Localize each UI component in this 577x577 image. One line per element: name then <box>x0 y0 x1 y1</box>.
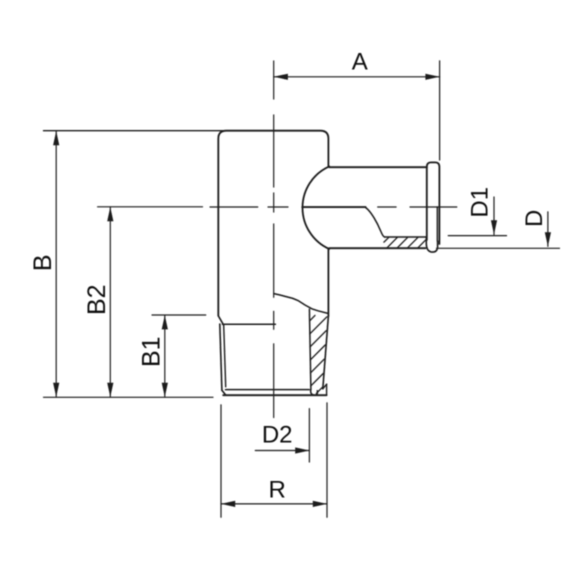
ridge section blob <box>426 238 437 252</box>
dome arc (barb root bulge) <box>303 166 330 249</box>
body right edge below dome <box>327 249 329 316</box>
dimension D <box>437 212 560 249</box>
right thread end chamfer <box>323 384 327 389</box>
interior wavy transition line (bore to thread) <box>274 294 328 314</box>
horizontal centerline <box>210 206 457 208</box>
svg-text:B2: B2 <box>83 284 111 315</box>
dimension B1 <box>152 315 206 397</box>
dimension D1 <box>448 197 506 236</box>
left bottom chamfer <box>222 390 226 395</box>
dimension B2 <box>98 207 203 397</box>
barb hatch diagonals <box>384 237 426 248</box>
barb end ridge <box>427 162 440 244</box>
left thread root line <box>224 325 226 387</box>
right outer corner edge <box>326 384 328 395</box>
svg-text:B: B <box>29 254 57 271</box>
dimension D2 <box>255 409 309 462</box>
svg-text:D2: D2 <box>262 421 293 448</box>
svg-text:B1: B1 <box>137 336 165 367</box>
body outline top and sides <box>44 130 227 132</box>
ridge inner end-face line <box>436 207 438 241</box>
bore edge line (solid, at centerline height) <box>302 206 365 208</box>
barb top line <box>329 166 427 168</box>
dimension R <box>221 403 327 517</box>
left thread crest line <box>220 324 222 390</box>
thread hatch diagonals <box>310 315 327 393</box>
svg-text:D1: D1 <box>467 187 494 218</box>
svg-text:R: R <box>269 477 286 504</box>
thread minor-diameter edge (hatch band left) <box>309 309 311 390</box>
bottom face line <box>223 394 326 396</box>
thread runout line to centerline <box>222 323 275 325</box>
barb bottom line <box>329 247 425 249</box>
dimension A <box>274 61 440 160</box>
dimension B <box>44 131 214 397</box>
svg-text:D: D <box>521 210 548 227</box>
svg-text:A: A <box>352 49 368 76</box>
thread end ball rounding <box>311 390 318 395</box>
vertical centerline <box>273 61 275 418</box>
barb wall hatch band top line <box>385 236 427 238</box>
bottom inner line <box>226 389 310 391</box>
bore-to-wall S-curve <box>366 208 385 238</box>
right thread crest taper <box>323 316 329 389</box>
left thread chamfer top <box>218 316 223 325</box>
